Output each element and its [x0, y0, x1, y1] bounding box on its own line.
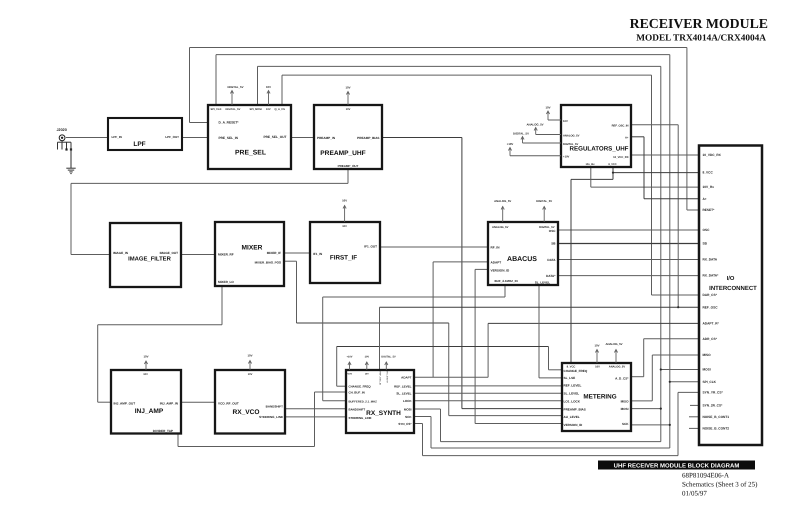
svg-text:10V: 10V: [546, 106, 551, 110]
svg-text:REF_LEVEL: REF_LEVEL: [564, 383, 582, 387]
wire Q_A_CS : PRE_SEL top pin rail to I/O DAR_CS*: [281, 75, 283, 105]
svg-text:PREAMP_UHF: PREAMP_UHF: [320, 150, 365, 157]
svg-text:CH_BUF_IN: CH_BUF_IN: [349, 391, 365, 395]
svg-text:SPI_CLK: SPI_CLK: [211, 108, 222, 111]
block LPF: [108, 118, 182, 150]
wire IMAGE_OUT to MIXER_RF: [181, 254, 215, 256]
svg-text:+10V: +10V: [347, 373, 353, 376]
block RX_SYNTH: [346, 370, 414, 433]
wire MISO : METERING to I/O: [631, 400, 652, 402]
block MIXER: [215, 222, 284, 286]
svg-text:+10V: +10V: [563, 156, 570, 159]
svg-text:FIRST_IF: FIRST_IF: [330, 255, 357, 262]
wire VERSION_ID : ABACUS to METERING: [475, 268, 488, 270]
wire ABACUS DATA to I/O RX_DATA: [558, 259, 699, 261]
wire REF_OSC net : REGULATORS REF_OSC_IN, RX_SYNTH top, I/O REF_OSC: [631, 124, 678, 126]
block ABACUS: [488, 222, 558, 285]
svg-text:DIGITAL_5V: DIGITAL_5V: [513, 132, 529, 136]
svg-text:BANDSHIFT: BANDSHIFT: [349, 408, 366, 412]
svg-text:8_VCC: 8_VCC: [703, 171, 714, 175]
wire DIVIDER_TAP to RX_SYNTH CH_BUF_IN: [177, 435, 179, 447]
svg-text:PRE_SEL_OUT: PRE_SEL_OUT: [263, 135, 286, 139]
block I/O INTERCONNECT: [699, 146, 762, 446]
wire J2020 to LPF_IN: [66, 137, 108, 139]
wire 10_VCC_RX : REGULATORS to I/O: [631, 154, 699, 156]
svg-text:INJ_AMP_OUT: INJ_AMP_OUT: [114, 401, 136, 405]
svg-text:DAR_CS*: DAR_CS*: [703, 293, 718, 297]
svg-text:NOISE_B_CONT2: NOISE_B_CONT2: [703, 427, 730, 431]
wire SPI_CLK : PRE_SEL top pin rail to right-side vertical, I/O SPI_CLK, METERING SCK, RX_SYNTH SCK loop: [215, 55, 217, 105]
wire STEERING_LINE RX_VCO to RX_SYNTH: [285, 416, 346, 418]
svg-text:10V: 10V: [563, 120, 568, 123]
svg-text:DIGITAL_5V: DIGITAL_5V: [226, 108, 241, 111]
svg-text:MOSI: MOSI: [404, 407, 412, 411]
svg-text:STEERING_LINE: STEERING_LINE: [349, 416, 372, 420]
svg-text:SYN_YR_CS*: SYN_YR_CS*: [703, 391, 724, 395]
svg-text:MIXER: MIXER: [242, 245, 263, 252]
block FIRST_IF: [310, 222, 380, 283]
power label ANALOG_5V (REGULATORS left): [536, 134, 561, 136]
svg-text:DATA*: DATA*: [546, 274, 556, 278]
svg-text:MOSI: MOSI: [703, 368, 711, 372]
svg-text:10V: 10V: [346, 86, 351, 90]
svg-text:LO1_LOCK: LO1_LOCK: [564, 399, 581, 403]
wire PRE_SEL_OUT to PREAMP_IN: [291, 137, 314, 139]
svg-text:SL_LSE: SL_LSE: [564, 376, 576, 380]
svg-text:68P81094E06-A: 68P81094E06-A: [682, 472, 729, 480]
svg-text:MODEL TRX4014A/CRX4004A: MODEL TRX4014A/CRX4004A: [636, 34, 766, 44]
svg-text:ANALOG_5V: ANALOG_5V: [492, 226, 509, 229]
svg-text:PREAMP_BIAS: PREAMP_BIAS: [564, 408, 586, 412]
power label DIGITAL_5V (ABACUS top): [543, 207, 545, 223]
svg-text:8_VCC: 8_VCC: [608, 163, 616, 166]
wire IF1_OUT to ABACUS RF_IN: [380, 246, 488, 248]
svg-text:SL_LEVEL: SL_LEVEL: [396, 392, 411, 396]
svg-text:REF_OSC: REF_OSC: [703, 305, 719, 309]
svg-text:SPI_MOSI: SPI_MOSI: [250, 108, 263, 111]
svg-text:DATA: DATA: [547, 258, 556, 262]
svg-text:PREAMP_OUT: PREAMP_OUT: [338, 164, 359, 168]
power label DIGITAL_5V (REGULATORS left): [523, 142, 562, 144]
svg-text:SL_LEVEL: SL_LEVEL: [564, 391, 580, 395]
svg-text:STEERING_LINE: STEERING_LINE: [259, 415, 283, 419]
svg-text:SB: SB: [551, 241, 556, 245]
svg-text:PREAMP_BIAS: PREAMP_BIAS: [357, 136, 379, 140]
svg-text:DIVIDER_TAP: DIVIDER_TAP: [153, 429, 173, 433]
power label 10V (REGULATORS left): [548, 119, 561, 121]
svg-text:SYN_CS*: SYN_CS*: [398, 422, 412, 426]
wire REF_LEVEL : RX_SYNTH to METERING: [414, 385, 562, 387]
node SCK junction at METERING branch: [669, 424, 671, 426]
svg-text:REGULATORS_UHF: REGULATORS_UHF: [570, 145, 629, 152]
wire ABACUS DATA* to I/O RX_DATA*: [558, 275, 699, 277]
svg-text:ANALOG_5V: ANALOG_5V: [526, 123, 543, 127]
node 8_VCC junction: [612, 172, 614, 174]
svg-text:RX_DATA: RX_DATA: [703, 258, 718, 262]
svg-text:10V: 10V: [365, 356, 370, 359]
wire CHANGE_FREQ bus : RX_SYNTH and METERING: [336, 347, 338, 387]
power label 10V (PRE_SEL top): [268, 91, 270, 106]
svg-text:INJ_AMP: INJ_AMP: [135, 408, 164, 415]
svg-text:RX_VCO: RX_VCO: [232, 409, 259, 416]
svg-text:IMAGE_IN: IMAGE_IN: [113, 251, 129, 255]
power label 10V (RX_SYNTH top): [366, 362, 368, 370]
power label 10V (PREAMP_UHF top): [347, 92, 349, 106]
wire BUF_2.1MHZ : ABACUS bottom to RX_SYNTH BUFFERED_2.1_MHZ: [504, 285, 506, 297]
power label 10V (INJ_AMP top): [145, 361, 147, 370]
svg-text:LPF_OUT: LPF_OUT: [165, 135, 179, 139]
block METERING: [562, 363, 631, 431]
wire MIXER_LO loop to INJ_AMP_OUT: [221, 286, 223, 325]
svg-text:ADAPT: ADAPT: [491, 261, 502, 265]
wire MIXER_IF to IF1_IN: [284, 252, 310, 254]
power label ANALOG_5V (METERING top): [615, 350, 617, 364]
wire MIXER_BIAS_POS via lower bus to METERING AU_LEVEL: [284, 260, 297, 262]
svg-text:METERING: METERING: [583, 394, 616, 401]
svg-text:10V: 10V: [266, 85, 271, 89]
svg-text:VCO_RF_OUT: VCO_RF_OUT: [218, 401, 239, 405]
svg-text:IMAGE_OUT: IMAGE_OUT: [160, 251, 179, 255]
svg-text:INJ_AMP_IN: INJ_AMP_IN: [160, 401, 179, 405]
svg-text:ADAPT_R*: ADAPT_R*: [703, 322, 720, 326]
power label ANALOG_5V (ABACUS top): [502, 207, 504, 223]
svg-text:SPI_CLK: SPI_CLK: [703, 380, 717, 384]
svg-text:MISO: MISO: [621, 400, 630, 404]
svg-text:MIXER_BIAS_POS: MIXER_BIAS_POS: [255, 260, 281, 264]
power label DIGITAL_5V (RX_SYNTH top): [385, 362, 387, 370]
svg-text:A+: A+: [625, 136, 629, 139]
power label DIGITAL_5V (PRE_SEL top): [231, 91, 233, 106]
svg-text:REF_LEVEL: REF_LEVEL: [394, 384, 412, 388]
wire SL_LEVEL : ABACUS bottom to METERING SL_LSE: [538, 285, 540, 378]
svg-text:BUF_2.1MHZ_IN: BUF_2.1MHZ_IN: [495, 279, 518, 283]
ground: [66, 168, 75, 173]
svg-text:ANALOG_5V: ANALOG_5V: [563, 134, 580, 137]
connector J2020: [57, 128, 73, 151]
power label 10V (METERING top): [596, 350, 598, 364]
power label +10V (RX_SYNTH top): [349, 362, 351, 370]
svg-text:10V_Rx: 10V_Rx: [703, 185, 715, 189]
svg-text:PRE_SEL: PRE_SEL: [235, 150, 266, 157]
svg-text:MIXER_RF: MIXER_RF: [218, 253, 234, 257]
node MOSI junction at METERING branch: [660, 408, 662, 410]
svg-text:PREAMP_IN: PREAMP_IN: [317, 136, 336, 140]
wire PREAMP_OUT down and left to IMAGE_FILTER IMAGE_IN: [347, 169, 349, 183]
svg-text:RF_IN: RF_IN: [491, 245, 501, 249]
svg-text:I/O: I/O: [727, 275, 735, 282]
svg-text:Q_A_CS: Q_A_CS: [275, 108, 286, 111]
svg-text:10_VCC_RX: 10_VCC_RX: [613, 156, 629, 159]
svg-text:IF1_IN: IF1_IN: [313, 252, 323, 256]
svg-text:10V: 10V: [143, 373, 148, 376]
svg-text:ANALOG_5V: ANALOG_5V: [494, 199, 511, 203]
wire stub NOISE_B_CONT2: [689, 427, 699, 429]
svg-text:10V: 10V: [595, 365, 600, 368]
svg-text:OSC: OSC: [549, 229, 556, 233]
wire D_A_RESET* : PRE_SEL left pin up over top rail to I/O RESET*: [190, 122, 209, 124]
svg-text:SCK: SCK: [622, 422, 629, 426]
svg-text:10V: 10V: [342, 225, 347, 228]
power label 10V (FIRST_IF top): [344, 206, 346, 223]
svg-text:10V: 10V: [248, 354, 253, 358]
svg-text:BANDSHIFT: BANDSHIFT: [266, 404, 283, 408]
power label 10V (RX_VCO top): [249, 361, 251, 371]
svg-text:VERSION_ID: VERSION_ID: [564, 423, 584, 427]
svg-text:ADR_CS*: ADR_CS*: [703, 337, 718, 341]
wire 10V_Rx : REGULATORS bottom to I/O: [590, 167, 592, 187]
svg-text:10_VDC_RX: 10_VDC_RX: [703, 153, 722, 157]
wire 8_VCC : REGULATORS bottom to I/O and METERING top: [612, 167, 614, 179]
svg-text:LOCK: LOCK: [403, 399, 412, 403]
svg-text:RX_DATA*: RX_DATA*: [703, 274, 720, 278]
svg-text:10v_Rx: 10v_Rx: [585, 163, 595, 166]
block IMAGE_FILTER: [110, 223, 181, 287]
wire PREAMP_BIAS to METERING PREAMP_BIAS: [382, 137, 462, 139]
block PRE_SEL: [208, 105, 291, 169]
svg-text:AU_LEVEL: AU_LEVEL: [564, 415, 580, 419]
svg-text:10V: 10V: [248, 373, 253, 376]
svg-text:8_VCC: 8_VCC: [567, 365, 576, 368]
svg-text:OSC: OSC: [703, 228, 711, 232]
node REF_OSC junction: [677, 306, 679, 308]
svg-text:RX_SYNTH: RX_SYNTH: [386, 372, 389, 384]
svg-text:REF_OSC_IN: REF_OSC_IN: [378, 372, 381, 386]
wire A+ : REGULATORS to I/O: [631, 136, 644, 138]
svg-text:IMAGE_FILTER: IMAGE_FILTER: [128, 256, 172, 263]
power label +10V (REGULATORS left): [510, 155, 561, 157]
wire ABACUS SB to I/O SB: [558, 243, 699, 245]
svg-text:ANALOG_5V: ANALOG_5V: [605, 342, 622, 346]
svg-text:REF_OSC_IN: REF_OSC_IN: [612, 124, 629, 127]
block INJ_AMP: [111, 370, 181, 434]
wire BANDSHIFT RX_VCO to RX_SYNTH: [285, 408, 346, 410]
svg-text:MISO: MISO: [703, 353, 712, 357]
svg-text:BUFFERED_2.1_MHZ: BUFFERED_2.1_MHZ: [349, 399, 378, 403]
svg-text:ANALOG_5V: ANALOG_5V: [609, 365, 626, 368]
svg-text:A_D_CS*: A_D_CS*: [615, 377, 629, 381]
svg-text:+10V: +10V: [347, 356, 353, 359]
svg-text:01/05/97: 01/05/97: [682, 490, 707, 498]
block RX_VCO: [215, 370, 285, 434]
block REGULATORS_UHF: [561, 105, 631, 167]
wire ABACUS OSC to I/O OSC: [558, 229, 699, 231]
title bar UHF RECEIVER MODULE BLOCK DIAGRAM: [598, 461, 755, 470]
wire SPI_MOSI : PRE_SEL top pin rail, right vertical, I/O MOSI, METERING MOSI, RX_SYNTH MOSI loop: [257, 66, 259, 105]
node MOSI junction at I/O branch: [660, 368, 662, 370]
svg-text:LPF_IN: LPF_IN: [112, 135, 122, 139]
wire LPF_OUT to PRE_SEL_IN: [182, 137, 208, 139]
svg-text:DIGITAL_5V: DIGITAL_5V: [563, 143, 579, 146]
svg-text:CHANGE_FREQ: CHANGE_FREQ: [349, 384, 372, 388]
svg-text:10V: 10V: [595, 344, 600, 348]
svg-text:DIGITAL_5V: DIGITAL_5V: [536, 199, 552, 203]
wire SYN_CS* loop to I/O SYN_YR_CS*: [414, 423, 423, 425]
wire A_D_CS* : METERING to I/O ADR_CS*: [631, 376, 644, 378]
svg-text:ADAPT: ADAPT: [401, 376, 412, 380]
svg-text:RECEIVER MODULE: RECEIVER MODULE: [630, 16, 768, 31]
svg-text:VERSION_ID: VERSION_ID: [491, 268, 511, 272]
svg-text:IF1_OUT: IF1_OUT: [364, 245, 377, 249]
wire VCO_RF_OUT to INJ_AMP_IN: [181, 401, 215, 403]
block PREAMP_UHF: [314, 105, 382, 169]
svg-text:SL_LEVEL: SL_LEVEL: [535, 280, 550, 284]
svg-text:10V: 10V: [342, 199, 347, 203]
svg-text:INTERCONNECT: INTERCONNECT: [709, 285, 757, 292]
svg-text:J2020: J2020: [57, 128, 67, 132]
svg-text:MIXER_LO: MIXER_LO: [218, 280, 234, 284]
wire LOCK : RX_SYNTH to METERING LO1_LOCK: [414, 400, 562, 402]
svg-text:SYN_2R_CS*: SYN_2R_CS*: [703, 404, 724, 408]
svg-text:LPF: LPF: [133, 141, 145, 148]
svg-text:10V: 10V: [266, 108, 271, 111]
svg-text:D_A_RESET*: D_A_RESET*: [219, 121, 240, 125]
svg-text:DIGITAL_5V: DIGITAL_5V: [228, 85, 244, 89]
svg-text:UHF RECEIVER MODULE BLOCK DIAG: UHF RECEIVER MODULE BLOCK DIAGRAM: [614, 463, 740, 470]
svg-text:A+: A+: [703, 197, 707, 201]
svg-text:PRE_SEL_IN: PRE_SEL_IN: [219, 136, 239, 140]
wire stub SYN_2R_CS*: [690, 404, 699, 406]
svg-text:10V: 10V: [365, 373, 369, 376]
node SPI_CLK junction at I/O branch: [669, 381, 671, 383]
svg-text:SCK: SCK: [405, 415, 412, 419]
wire stub NOISE_B_CONT1: [689, 416, 699, 418]
svg-text:10V: 10V: [346, 108, 351, 111]
svg-text:Schematics (Sheet 3 of 25): Schematics (Sheet 3 of 25): [682, 481, 758, 489]
svg-text:MOSI: MOSI: [621, 407, 629, 411]
wire J2020 shield to ground: [70, 150, 72, 169]
svg-text:SB: SB: [703, 242, 708, 246]
svg-text:NOISE_B_CONT1: NOISE_B_CONT1: [703, 415, 730, 419]
svg-text:ABACUS: ABACUS: [507, 256, 537, 263]
wire ADAPT net : ABACUS ADAPT, RX_SYNTH ADAPT, I/O ADAPT_R*: [433, 261, 488, 263]
svg-text:DIGITAL_5V: DIGITAL_5V: [381, 356, 396, 359]
svg-text:CHANGE_FREQ: CHANGE_FREQ: [564, 369, 588, 373]
svg-text:MIXER_IF: MIXER_IF: [267, 251, 281, 255]
svg-text:+10V: +10V: [507, 142, 514, 146]
wire SL_LEVEL : RX_SYNTH to METERING: [414, 392, 562, 394]
svg-text:RESET*: RESET*: [703, 208, 716, 212]
svg-text:10V: 10V: [144, 355, 149, 359]
